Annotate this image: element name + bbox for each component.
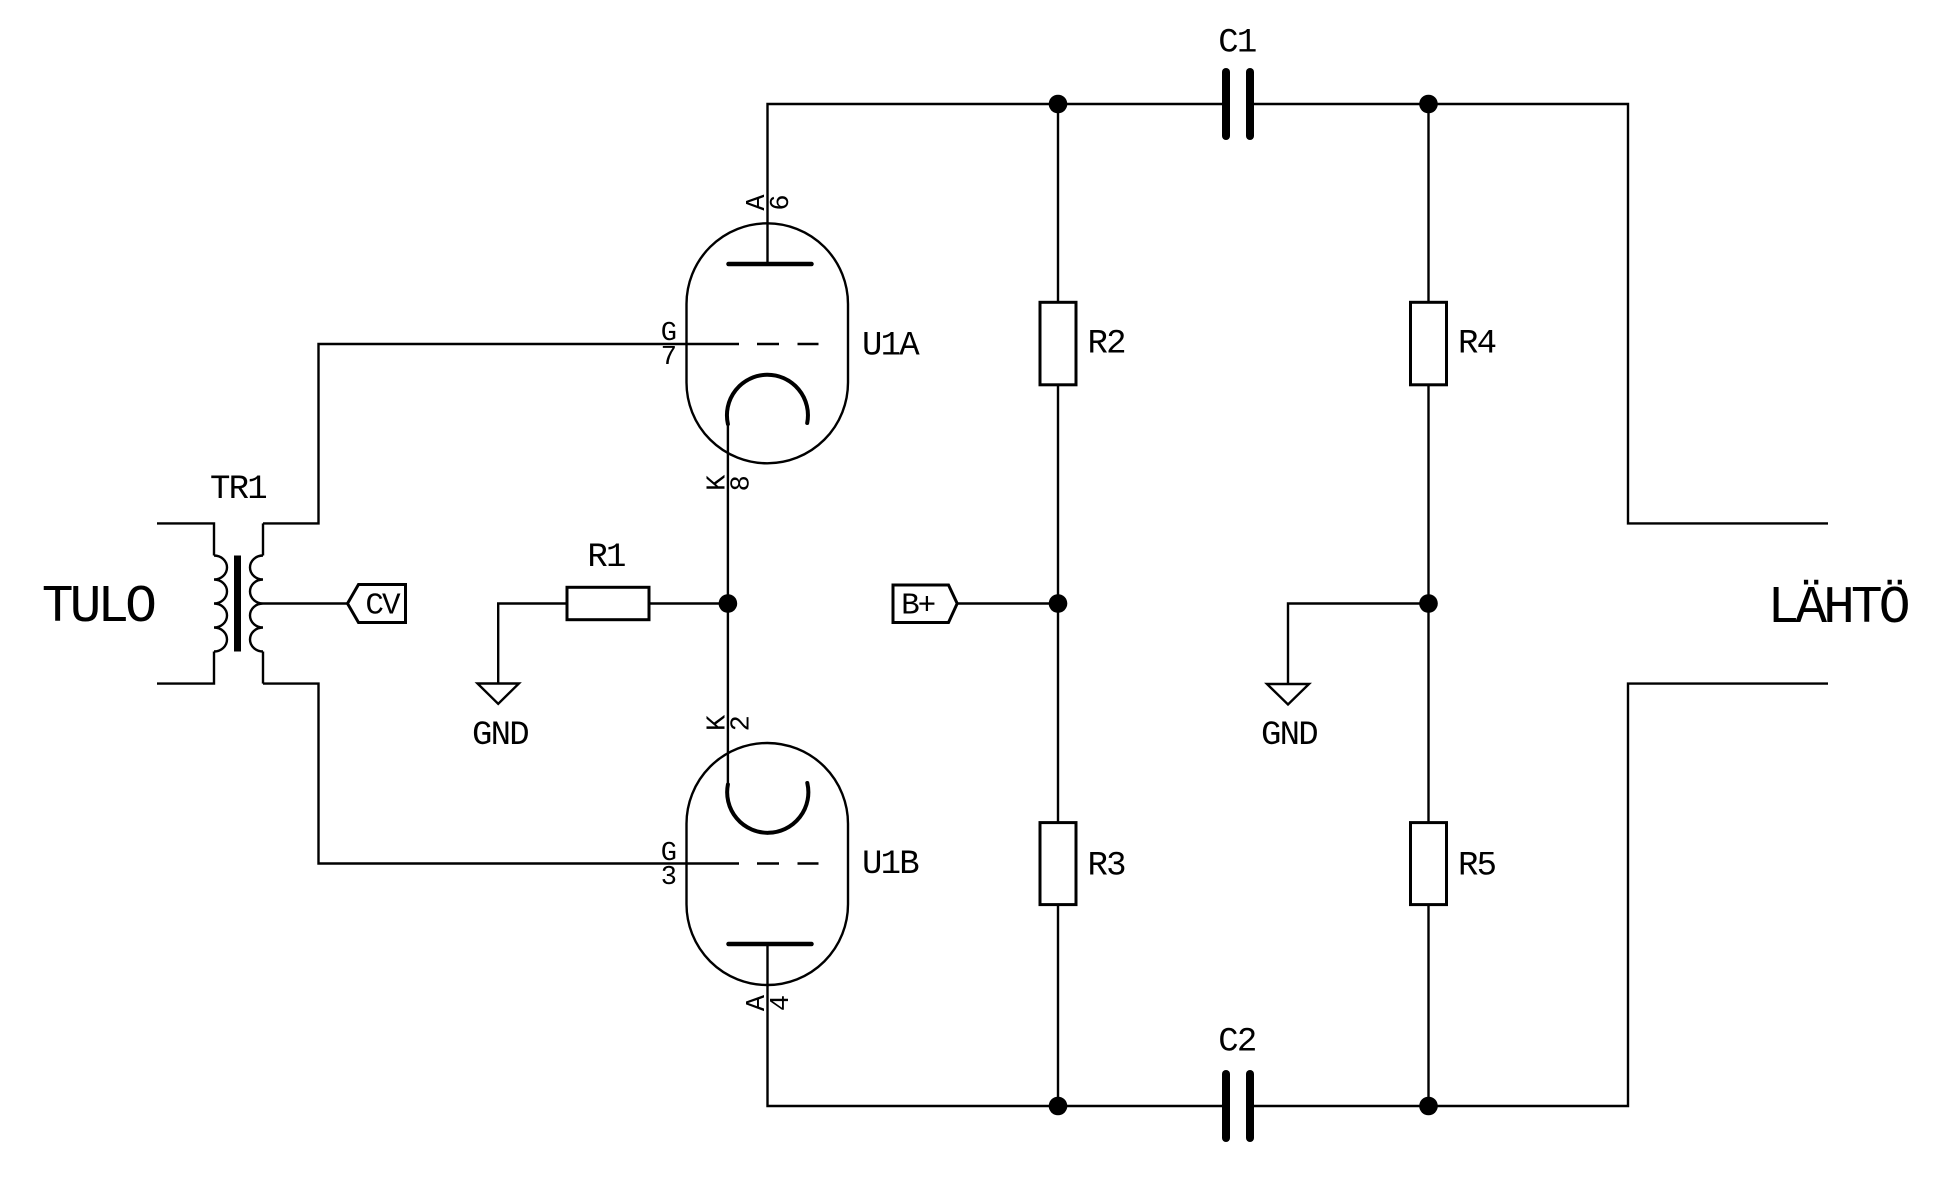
tube U1B envelope	[687, 743, 849, 985]
svg-text:GND: GND	[472, 717, 528, 755]
capacitor C1	[1226, 72, 1250, 136]
junction GND2 / R4 column	[1419, 594, 1438, 613]
wire R2-R3 column middle	[1057, 385, 1059, 823]
wire TR1 secondary top stub	[262, 523, 264, 555]
svg-text:R5: R5	[1458, 848, 1496, 886]
flag CV	[348, 585, 406, 623]
wire R4 column top	[1427, 104, 1429, 302]
svg-text:R2: R2	[1088, 326, 1125, 364]
ground GND2 symbol	[1267, 684, 1309, 705]
svg-text:7: 7	[661, 343, 676, 373]
svg-text:LÄHTÖ: LÄHTÖ	[1768, 578, 1909, 638]
tube U1B anode plate	[729, 942, 812, 947]
resistor R2	[1040, 302, 1076, 385]
wire R1 right to cathode junction	[649, 602, 728, 604]
svg-text:6: 6	[767, 196, 797, 211]
wire U1A grid to left riser	[263, 344, 739, 523]
svg-text:3: 3	[661, 863, 676, 893]
svg-text:R3: R3	[1088, 848, 1126, 886]
junction cathode / R1	[719, 594, 738, 613]
svg-text:C2: C2	[1218, 1024, 1255, 1062]
tube U1B cathode arc	[727, 783, 808, 833]
svg-text:U1B: U1B	[862, 846, 919, 884]
wire top bus right (C1 to output riser)	[1254, 104, 1828, 523]
svg-text:4: 4	[767, 996, 797, 1011]
capacitor C2	[1226, 1074, 1250, 1138]
svg-text:TULO: TULO	[42, 577, 155, 637]
wire top bus left (U1A anode riser to C1)	[768, 104, 1223, 264]
transformer TR1 secondary winding	[250, 556, 263, 652]
wire cathode column K8-K2	[727, 424, 729, 785]
wire R3 column bottom	[1057, 905, 1059, 1106]
svg-text:2: 2	[727, 716, 757, 731]
resistor R1	[567, 587, 649, 619]
wire TR1 primary bottom pin	[157, 652, 214, 684]
resistor R3	[1040, 823, 1076, 905]
wire TR1 secondary bottom stub	[262, 652, 264, 684]
tube U1A cathode arc	[727, 375, 808, 424]
transformer TR1 primary winding	[214, 556, 227, 652]
wire R4-R5 column middle	[1427, 385, 1429, 823]
svg-text:R1: R1	[587, 539, 625, 577]
wire B+ to R2 column	[957, 602, 1058, 604]
svg-text:U1A: U1A	[862, 328, 920, 366]
tube U1A anode plate	[729, 262, 812, 267]
resistor R4	[1411, 302, 1447, 385]
svg-text:R4: R4	[1458, 326, 1496, 364]
svg-text:C1: C1	[1218, 25, 1256, 63]
tube U1A envelope	[687, 223, 849, 463]
wire GND2 from R4 column	[1288, 604, 1429, 685]
transformer TR1 core	[234, 556, 241, 652]
svg-text:CV: CV	[365, 589, 401, 624]
wire R5 column bottom	[1427, 905, 1429, 1106]
wire R1 left to GND	[498, 604, 567, 684]
tube U1B grid dashes	[757, 862, 819, 864]
wire TR1 center tap to CV	[263, 602, 348, 604]
wire U1B grid to left riser	[263, 684, 739, 864]
junction bottom bus / R3 column	[1049, 1097, 1068, 1116]
svg-text:B+: B+	[901, 589, 935, 624]
wire TR1 primary top pin	[157, 523, 214, 555]
ground GND1 symbol	[478, 684, 519, 704]
flag B+	[893, 585, 957, 623]
junction top bus / R4 column	[1419, 95, 1438, 114]
tube U1A grid dashes	[757, 343, 819, 345]
wire bottom bus right (C2 to output riser)	[1254, 684, 1828, 1106]
junction top bus / R2 column	[1049, 95, 1068, 114]
junction bottom bus / R5 column	[1419, 1097, 1438, 1116]
wire R2 column top	[1057, 104, 1059, 302]
svg-text:TR1: TR1	[210, 471, 266, 509]
junction B+ / R2 column	[1049, 594, 1068, 613]
svg-text:GND: GND	[1261, 717, 1317, 755]
resistor R5	[1411, 823, 1447, 905]
svg-text:8: 8	[727, 476, 757, 491]
wire bottom bus left (U1B anode riser to C2)	[768, 944, 1223, 1106]
